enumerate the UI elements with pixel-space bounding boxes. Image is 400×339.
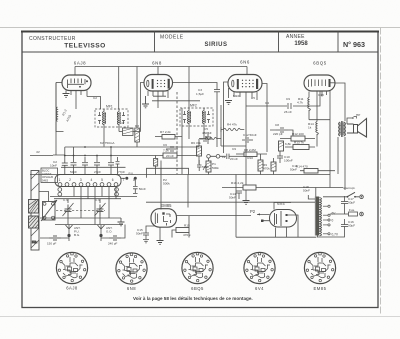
wire tuner bus A [50,196,137,198]
svg-text:6BQ5: 6BQ5 [313,61,327,66]
capacitor C10 [277,151,283,163]
tube V1 6AJ8 envelope [62,75,91,91]
svg-text:R7 2,2k: R7 2,2k [160,130,171,134]
wire transformer bottom [317,236,319,238]
wire switch drop 5 [101,186,103,196]
capacitor C14 [236,191,242,199]
svg-text:R14 470: R14 470 [296,165,308,169]
capacitor C5 [82,157,88,175]
resistor R9 vert [271,162,276,171]
wire r17 leads [155,156,157,175]
capacitor C5d [116,157,120,175]
wire x161 above rail [160,161,162,175]
resistor R1 vertical coil [56,107,57,121]
wire p1 [208,158,210,174]
wire corner to em85 line [147,168,189,178]
switch bank body [55,175,121,187]
wire r10 [260,154,262,175]
resistor R14coil [316,122,319,135]
wire x236 drop [235,175,237,238]
resistor R3 hatched [135,128,140,142]
tube EM85 envelope [151,209,177,228]
svg-text:C8: C8 [275,123,279,127]
PU jack 2 [216,155,220,159]
wire v2 right [173,83,218,90]
capacitor C9mid [227,154,229,159]
svg-text:R6 47k: R6 47k [191,141,201,145]
wire c16 down [317,232,345,237]
svg-text:R5: R5 [251,96,255,100]
capacitor C10m [205,132,211,144]
svg-text:0,7V: 0,7V [332,233,339,237]
IF transformer MF2 [180,108,213,126]
capacitor C5c [108,157,114,175]
tube EM85 internals [155,212,170,225]
component C7 box [123,128,134,136]
svg-text:EM85: EM85 [314,286,327,291]
svg-text:12: 12 [222,155,226,159]
wire em85 r15 bottom [201,237,237,239]
capacitor C2 inline [62,163,68,165]
header divider 1 [154,32,156,53]
IF transformer MF1 [95,109,128,127]
ferrite rod [31,171,39,251]
svg-text:EM85: EM85 [161,203,173,208]
svg-text:CONSTRUCTEUR: CONSTRUCTEUR [29,36,76,42]
svg-text:C2: C2 [93,96,97,100]
resistor R7 [162,135,175,140]
wire v1 plate to mf1 [87,97,101,110]
speaker cone [358,119,367,138]
svg-text:4,7k: 4,7k [297,101,303,105]
wire AVC rail [65,146,199,148]
wire top rail left [75,66,153,68]
svg-text:MODELE: MODELE [160,35,184,41]
wire r15 [172,230,189,238]
wire em85 bottom [159,228,161,241]
svg-text:C13: C13 [318,93,324,97]
wire v2 pin path [152,96,200,101]
header bottom line [22,51,378,53]
tuner block box [41,168,58,183]
svg-text:SIRIUS: SIRIUS [204,42,227,48]
resistor R6 vert [197,146,202,156]
wire r1 leads [55,83,57,132]
wire p2 to 6v4 [257,214,270,220]
wire x177 avc down dashed [176,92,178,174]
socket S2 6N8 [116,253,147,284]
wire v4 right to speaker [335,83,345,121]
mains terminal 1 [360,195,364,199]
socket S3 6BQ5 [182,252,213,283]
svg-text:6AJ8: 6AJ8 [74,61,86,66]
wire c7 link [119,131,141,133]
svg-text:100nF: 100nF [284,159,293,163]
ground v3 [225,101,232,105]
svg-text:50µF: 50µF [348,201,355,205]
tube V2 6N8 envelope [144,75,173,92]
svg-text:Fus.: Fus. [349,208,355,212]
potentiometer P1 [203,161,211,172]
capacitor C6 [109,235,121,241]
wire top rail mid [153,66,247,68]
wire v3 right [262,84,267,153]
wire r9 [273,158,275,175]
ferrite rod hatching [31,171,39,248]
header divider 2 [278,32,280,53]
svg-text:0: 0 [332,219,334,223]
component C7 hatch [123,128,134,134]
mains terminal 2 [360,212,364,216]
switch output dot [125,177,128,180]
wire trimmer drops [68,199,100,225]
wire v1 left pin [56,82,62,84]
tube V4 6BQ5 envelope [304,75,335,91]
wire switch drop 2 [80,186,82,218]
wire c3 down [216,92,218,147]
tuning gang corner screws [43,202,55,219]
svg-text:R10: R10 [247,156,253,160]
svg-text:20 nF: 20 nF [230,157,238,161]
power transformer left edge [314,197,316,236]
svg-text:5463: 5463 [42,178,48,182]
socket S5 EM85 [304,252,335,283]
wire v2 left [141,83,145,132]
wire v1 anode up [74,67,76,76]
wire c8 [270,130,293,136]
wire heater rail [146,201,315,203]
wire c9 line [246,91,320,106]
svg-text:1 2 3 4 5 6 7 8: 1 2 3 4 5 6 7 8 [59,178,139,182]
svg-text:50nF: 50nF [229,196,236,200]
resistor R5 7,5k box [163,153,177,158]
svg-text:50µF: 50µF [348,224,355,228]
wire c1 left [40,225,125,239]
capacitor under PU dot [133,180,138,194]
ground x246 [243,201,250,205]
ferrite coil L1 [29,200,39,214]
wire r11 [309,92,330,120]
wire r6 [198,139,200,164]
svg-text:50nF: 50nF [233,94,240,98]
page edge shadow bottom [0,316,400,318]
wire 6v4 plate out [288,215,299,238]
junction dots caps row [64,146,112,156]
svg-text:1,5µF: 1,5µF [196,92,204,96]
wire transformer top [308,188,343,200]
tube 6V4 envelope [270,210,297,228]
wire speaker top right [347,117,353,124]
wire p2 arrow [257,213,260,215]
page edge shadow top [0,27,400,29]
wire switch drop 3 [87,186,89,198]
wire v3 left [224,82,229,153]
socket S4 6V4 [244,252,275,283]
border frame top thick [22,31,378,33]
output transformer core [342,121,343,137]
svg-text:P2: P2 [250,209,256,214]
resistor R13 box [293,145,309,150]
switch extra contacts left [58,188,62,192]
svg-text:6N6: 6N6 [240,60,250,65]
wire v4 pins down [322,91,327,97]
wire x246 to em85 [221,105,246,200]
svg-text:6AJ8: 6AJ8 [66,286,78,291]
wire x137 down [136,67,138,148]
svg-text:Voir à la page 58 les détails: Voir à la page 58 les détails techniques… [133,296,253,301]
power transformer taps [323,205,330,235]
speaker voice coil [354,125,358,134]
wire 6v4 bottom rail [236,236,316,238]
svg-text:26 nF: 26 nF [284,110,292,114]
wire switch drop 1 [73,186,75,196]
svg-text:500k: 500k [163,182,170,186]
mains terminal 1 dot [361,196,362,197]
mains terminal 2 dot [361,213,362,214]
capacitor C12 [242,137,253,143]
svg-text:6V4: 6V4 [255,286,264,291]
capacitor C9 [288,103,291,109]
svg-text:500k: 500k [212,166,219,170]
wire fuse left [330,208,345,214]
svg-text:6V4: 6V4 [277,201,285,206]
tube V2 internals [147,79,170,89]
svg-text:ANNEE: ANNEE [286,34,305,40]
svg-text:77pF: 77pF [118,170,125,174]
page edge shadow right [380,28,382,316]
capacitor C15 [143,229,149,240]
tube V1 grid dashes [68,79,89,89]
resistor R11 coil [308,98,311,111]
output transformer coil blob [339,123,346,136]
mains switch dots [347,196,356,198]
antenna terminal 1 [67,234,70,237]
svg-text:6N8: 6N8 [127,286,136,291]
svg-text:220 pF: 220 pF [273,132,283,136]
resistor R16 box [243,185,256,190]
wire c10h leads [199,138,221,140]
svg-text:R3: R3 [135,124,139,128]
resistor R14 box [304,169,318,174]
svg-text:240 pF: 240 pF [108,242,118,246]
svg-text:C6: C6 [163,143,167,147]
capacitor C16 electrolytic [341,219,348,232]
tuning gang CV1 [43,202,56,221]
wire r14coil [316,92,318,147]
svg-text:50µF: 50µF [202,165,209,169]
wire v3 grid up [246,67,248,75]
svg-text:MF1: MF1 [106,105,113,109]
capacitor C8b [200,136,212,142]
gang coupling dashed [56,210,105,212]
resistor R7b coil [224,128,241,131]
tuning gang arrowhead [54,200,57,203]
antenna input 2 [98,225,105,234]
wire switch to dot [121,177,125,179]
resistor R12 box [291,136,305,141]
svg-text:TELEVISSO: TELEVISSO [64,43,106,50]
output transformer primary coil [339,122,341,136]
svg-text:450 pF: 450 pF [202,131,212,135]
wire switch drop 7 [115,186,117,198]
wire caps crossing bus [61,147,126,167]
wire r7 [155,108,182,174]
svg-text:1k: 1k [308,126,312,130]
svg-text:50nF: 50nF [136,232,143,236]
ferrite coil L2 [29,216,39,228]
trimmer CV3 [95,203,106,216]
svg-text:470 k: 470 k [183,233,191,237]
coil C10h 450 [206,137,217,139]
wire r14 [300,170,335,172]
power transformer secondary winding [320,198,322,236]
svg-text:B.G.: B.G. [74,233,80,237]
capacitor C8 [276,127,288,133]
wire mf1 bottom drops [104,127,119,147]
svg-text:R8 2,2M: R8 2,2M [244,148,256,152]
svg-text:C4: C4 [265,101,269,105]
antenna terminal 2 [99,234,102,237]
tube 6V4 internals [261,211,288,226]
ground em85 [157,241,164,245]
svg-text:20 nF: 20 nF [166,154,174,158]
svg-text:R13 7k: R13 7k [294,141,304,145]
wire em85 right [177,216,252,228]
svg-text:50pF: 50pF [70,170,77,174]
wire r8 [236,153,267,155]
wire v1 pins down [66,91,87,110]
svg-text:G.O.: G.O. [106,230,113,234]
svg-text:N° 963: N° 963 [343,40,365,49]
svg-text:F.B.: F.B. [32,240,37,244]
wire 6v4 top entry [274,203,291,210]
svg-text:10nF: 10nF [50,164,57,168]
svg-text:6N8: 6N8 [152,61,162,66]
switch extra contacts right [115,188,119,192]
capacitor C3 [214,90,220,92]
wire x221 [221,145,246,147]
svg-text:C9: C9 [232,147,236,151]
capacitor C6m [166,146,178,152]
ground c15 [143,240,149,243]
power transformer core [316,197,319,236]
tube V3 internals [232,79,259,89]
wire switch drop 6 [108,186,110,218]
speaker label mark [354,117,357,119]
socket S1 6AJ8 [56,252,87,283]
tuning gang arrow [41,200,57,221]
capacitor C17 electrolytic [341,196,348,208]
border frame [22,32,378,308]
wire rail y155 right [177,155,197,157]
wire mf2 left top [188,67,190,109]
header divider 3 [337,32,339,53]
wire c15 [146,226,155,229]
wire 6v4 bottom pins [276,227,287,237]
wire tuner bus B [54,198,121,200]
svg-text:HP: HP [356,113,360,117]
resistor R15 box [176,228,189,233]
PU dot 2 [134,177,137,180]
ground tuner [118,218,125,226]
svg-text:C9: C9 [286,97,290,101]
svg-text:50nF: 50nF [290,168,297,172]
output transformer secondary coil [344,122,346,136]
wire bus2 [55,224,123,226]
wire r7b leads [221,127,244,132]
resistor R17 hatched [154,159,158,167]
wire x53 corner to x64.8 [53,147,65,175]
svg-text:R16 2,2k: R16 2,2k [231,181,244,185]
wire rail y155 [30,155,163,157]
wire pu link [210,155,226,157]
tube V4 internals [309,79,336,87]
svg-text:27pF: 27pF [94,170,101,174]
resistor R12b vert [279,141,284,151]
svg-text:50nF: 50nF [303,189,310,193]
wire x56 down [56,83,64,156]
trimmer CV2 [63,203,74,216]
svg-text:6BQ5: 6BQ5 [191,286,204,291]
tube V3 6N6 envelope [228,75,262,93]
ground v1 [63,94,70,98]
svg-text:R12 100: R12 100 [292,132,304,136]
svg-text:470k: 470k [263,167,270,171]
svg-text:50nF: 50nF [139,187,146,191]
svg-text:6V 750mA: 6V 750mA [100,141,115,145]
PU jack 1 [207,155,211,159]
svg-text:R4 47k: R4 47k [227,123,237,127]
wire x246 mid down [245,106,247,146]
wire v3 pins down [234,92,257,106]
capacitor C4 [71,157,77,175]
svg-text:150 pF: 150 pF [47,242,57,246]
mains switch [343,192,359,197]
wire r12 r13 [280,139,315,148]
wire c9mid out [229,155,244,157]
wire mf2 bottom drops [189,126,204,139]
fuse [344,212,358,216]
wire switch drop 4 [94,186,96,224]
capacitor C1 [49,235,61,241]
ground v2 [142,96,149,108]
capacitor C8g [197,160,202,171]
svg-text:Interrupt.: Interrupt. [343,186,356,190]
svg-text:6,8k: 6,8k [285,142,291,146]
wire rail to mf1 right [118,67,120,110]
resistor R10 vert [258,160,263,171]
svg-text:R15: R15 [184,224,190,228]
switch contact row [58,183,62,187]
resistor R8 2,2M [244,152,257,157]
capacitor C5b [94,157,100,175]
wire v2 anode up [157,67,159,75]
wire switch to gang bus [40,217,121,219]
wire speaker down [338,137,345,190]
wire ant1 down [69,237,101,241]
wire long rail y174 [30,174,330,176]
svg-text:47: 47 [121,121,125,125]
wire right bus x330 [329,91,331,188]
wire transformer to speaker [347,124,354,133]
svg-text:1958: 1958 [294,41,308,47]
wire mains rail y187 [222,187,343,189]
svg-text:MF2: MF2 [190,104,197,108]
svg-text:7,5k: 7,5k [163,149,169,153]
wire gang top [39,192,49,202]
wire em85 top feeds [161,175,188,210]
svg-text:C12 50nF: C12 50nF [243,133,257,137]
